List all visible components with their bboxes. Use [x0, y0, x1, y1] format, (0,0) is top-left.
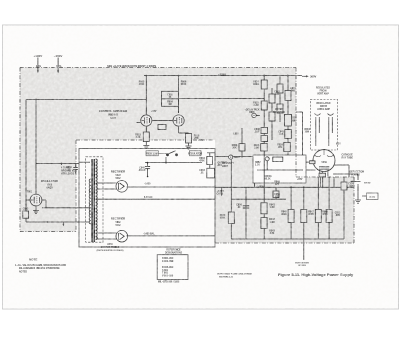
dash-dot border: left edge [19, 68, 21, 232]
wire secondary to rectifier V832 [97, 233, 116, 239]
dash-dot border: right of bottom block [353, 177, 355, 243]
label C853 [335, 213, 341, 218]
label VR tube [291, 117, 297, 123]
label C834 [199, 169, 205, 175]
label R825 [253, 103, 259, 108]
divider leg R848 [315, 177, 321, 239]
white box W1: rectifier/transformer enclosure [79, 149, 215, 248]
shaded region: top block [20, 68, 296, 141]
reference note box [362, 193, 378, 200]
wire filament tap line [97, 198, 215, 200]
label R805 [139, 82, 145, 87]
label C806 [66, 167, 72, 172]
bottom block bus -1450V [215, 186, 354, 188]
capacitor C806 [73, 164, 78, 174]
ground symbol right [355, 184, 361, 203]
label meter resistor [273, 109, 285, 114]
white box W2: regulator sub-circuit enclosure [253, 155, 306, 183]
W2 internal: tube socket circle [265, 157, 269, 170]
resistor R815 cathode [143, 132, 149, 146]
wire secondary to rectifier V822 [97, 183, 116, 189]
shaded region: left column [20, 140, 76, 232]
label see note [364, 183, 371, 185]
note body [15, 264, 66, 273]
triode V805B [173, 99, 184, 134]
CRT bulb V859 [313, 150, 335, 172]
wire W2 drop to bus [254, 183, 256, 187]
dash-dot border: top edge of shaded area [20, 67, 296, 69]
wire regulator feedback [145, 157, 202, 164]
wire bias line [26, 221, 89, 226]
label C850A [265, 175, 272, 181]
wire meter chain to W2 [296, 112, 303, 155]
label T801 [27, 192, 33, 194]
wire -1450V bal output V832 [127, 235, 216, 237]
annotation multiplier [217, 273, 252, 279]
resistor R813 coupling [152, 121, 173, 130]
wire CRT to intensity network [335, 165, 350, 177]
CRT horizontal deflection plates [328, 114, 334, 147]
resistor R818 cathode [179, 133, 192, 146]
oscillator loop top wire [36, 163, 79, 165]
bottom block second bus [231, 198, 286, 200]
wire primary top lead [79, 161, 90, 163]
label R853 [305, 129, 311, 134]
switch SW801 [158, 151, 177, 156]
capacitor C840 [145, 163, 150, 178]
node +100V feed arrow [37, 58, 39, 74]
label oscillator [41, 179, 58, 190]
arrow connector [350, 181, 361, 183]
wire B807 drop [230, 159, 232, 187]
label R841 [269, 204, 275, 210]
wire +225V bus [144, 75, 302, 77]
wire grid lead V805A [137, 122, 141, 124]
label C848 [254, 128, 260, 134]
CRT deflection dashed box [310, 100, 337, 151]
dash-dot border: bottom of bottom block [215, 242, 354, 244]
label R827 [290, 87, 296, 93]
label deflection [350, 172, 365, 177]
W2 internal wire [257, 169, 303, 171]
neon lamp B805 [252, 113, 260, 117]
label C845 [278, 131, 284, 137]
wire oscillator feedback line to control amp [26, 99, 146, 101]
label R843 [269, 230, 275, 236]
CRT base leads [310, 161, 328, 188]
reference designations box [157, 255, 188, 280]
shaded region: middle column [215, 140, 296, 177]
wire 360V takeoff with arrowhead [302, 75, 309, 77]
capacitor C803 [23, 204, 29, 218]
bottom block bottom bus [231, 238, 344, 240]
resistor R835 label box [146, 151, 158, 156]
label regulated from vert amp [316, 87, 330, 96]
label R824 [253, 81, 260, 87]
label intensity limit [222, 163, 234, 168]
ground below V805A [143, 146, 149, 149]
label rectifier V822 [111, 170, 125, 181]
divider leg C854 [341, 177, 347, 239]
label R845 [281, 211, 287, 217]
resistor R805 plate load [145, 76, 147, 115]
wire +225 into W1 top [207, 152, 215, 154]
node -100V feed arrow [57, 58, 59, 74]
dash-dot border: bottom of top block [76, 139, 213, 141]
divider leg R847 [301, 187, 307, 260]
wire CRT base drop [320, 177, 322, 187]
wire control amp output to divider chain [179, 98, 265, 100]
label R846 [254, 144, 260, 150]
divider chain vertical 2 [269, 88, 275, 140]
coupling network C805 R809 [162, 91, 179, 106]
capacitor C834 [207, 164, 215, 178]
neon lamp B807 [229, 155, 233, 159]
divider leg R840 [228, 187, 234, 239]
label C840 [138, 167, 146, 173]
label R847 [308, 211, 314, 217]
feedback winding box [61, 164, 63, 166]
label R852 [255, 162, 261, 167]
ground below V805B [186, 146, 192, 149]
diode V822 rectifier [116, 181, 128, 193]
divider leg R849 [326, 177, 332, 239]
wire W2 to CRT cathode [306, 169, 316, 171]
label C803 [23, 209, 29, 211]
triode V805A [141, 110, 152, 132]
wire left feed vertical [25, 100, 27, 223]
ground below V800 [33, 206, 39, 214]
dash-dot border: bottom of left column [20, 231, 76, 233]
reference designations header [165, 250, 183, 255]
transformer T801 core [92, 159, 94, 242]
label R806 [181, 82, 187, 87]
wire CRT cathode tap with arrow [221, 187, 223, 196]
CRT vertical deflection plates [315, 114, 321, 147]
label feedback turns [61, 167, 78, 176]
label cathode ray tube [342, 154, 354, 160]
label CONTROL AMPLIFIER [99, 109, 127, 120]
label B805 [245, 109, 260, 115]
relay B801 label box [189, 151, 201, 156]
wire oscillator cathode [42, 200, 89, 208]
dash-dot border: right of left column [75, 140, 77, 232]
label output adj [218, 163, 228, 168]
label R842 [269, 218, 275, 224]
label R815 [135, 135, 141, 140]
resistor R806 plate load [178, 76, 180, 113]
intensity drop wire [333, 177, 335, 187]
wire CRT deflection lead right [333, 174, 358, 180]
divider chain vertical 1 [261, 76, 268, 239]
label C854 [348, 183, 354, 189]
label R849 top [274, 181, 280, 187]
oscillator plate vertical [35, 100, 37, 195]
wire to W2 box [215, 156, 253, 158]
label R834 [199, 157, 205, 163]
transformer T801 secondary winding [96, 159, 98, 240]
resistor R834 [207, 153, 213, 165]
dash-dot border: top of bottom block [296, 176, 354, 178]
W2 internal: label box [273, 157, 283, 162]
wire oscillator grid lead [26, 199, 30, 201]
wire -1450V output V822 [127, 186, 216, 188]
resistor R808 [239, 144, 245, 157]
divider leg R841 R842 [261, 203, 267, 229]
label R848 [322, 211, 328, 217]
label R840 [220, 214, 226, 220]
transformer T801 shield box [86, 157, 103, 242]
rectifier chain vertical 4 [284, 76, 292, 155]
label R809 [167, 102, 173, 107]
inductor L805 lead [241, 128, 243, 144]
divider leg R844 [273, 187, 279, 199]
label C805 [167, 95, 173, 100]
label R829 [277, 145, 283, 150]
triode V800 oscillator [30, 194, 42, 206]
label regulated from horiz amp [316, 102, 330, 111]
label C850 [236, 205, 242, 210]
label R826 [274, 91, 280, 97]
label A350 copper shield [97, 243, 124, 252]
label bottom view [295, 263, 309, 267]
divider chain vertical 3 [277, 76, 283, 122]
label R808 [232, 145, 238, 150]
wire W2 to CRT grid [306, 161, 313, 163]
shaded region: bottom block [215, 177, 354, 243]
label rectifier V832 [111, 217, 125, 228]
diode V832 rectifier [116, 230, 128, 242]
capacitor C850 leg [243, 187, 249, 239]
dash-dot border: right edge of top block [295, 68, 297, 178]
label R850 [274, 194, 280, 199]
divider leg R845 [288, 187, 294, 239]
transformer T801 primary winding [89, 179, 91, 224]
label R818 [194, 136, 200, 141]
